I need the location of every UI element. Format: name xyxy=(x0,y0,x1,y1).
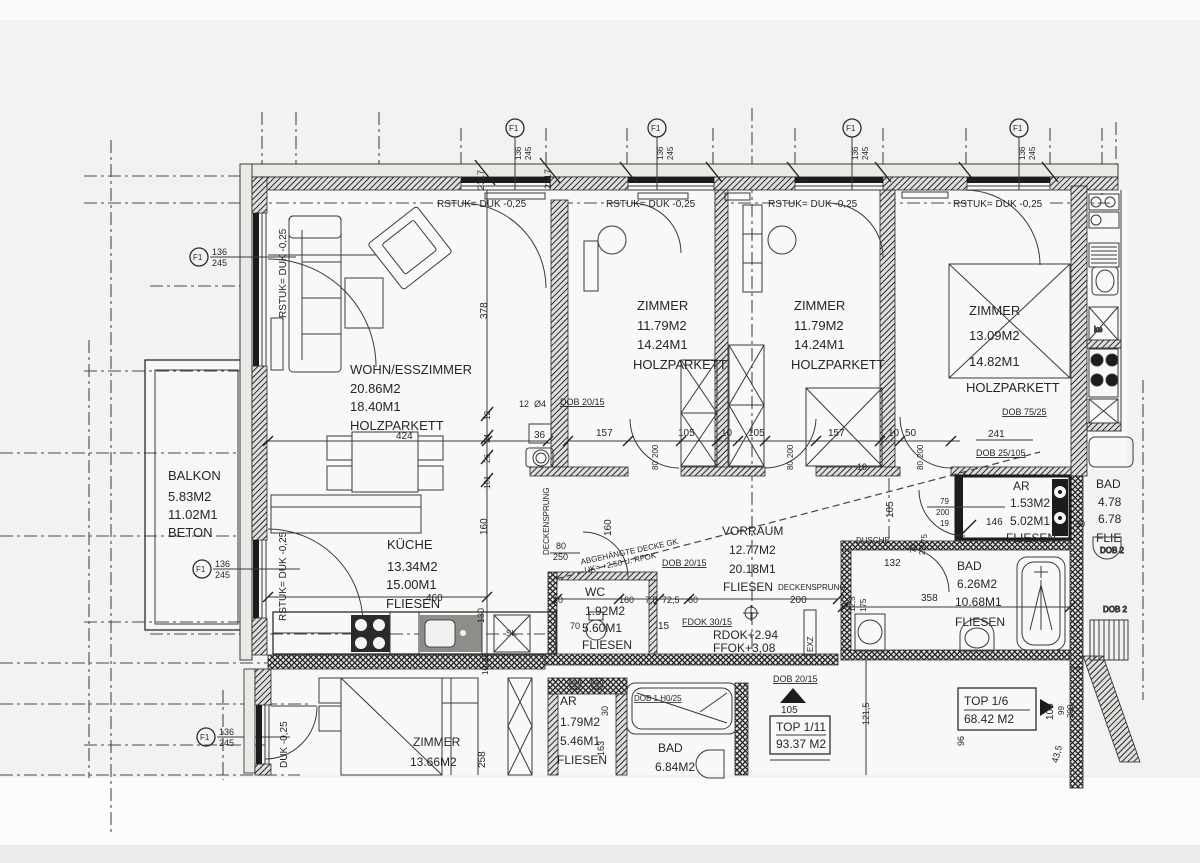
svg-text:132: 132 xyxy=(884,558,901,569)
svg-text:245: 245 xyxy=(215,570,230,580)
svg-text:F1: F1 xyxy=(651,124,661,133)
svg-text:160: 160 xyxy=(479,518,490,535)
svg-text:200: 200 xyxy=(1066,704,1075,718)
svg-text:72,5: 72,5 xyxy=(662,595,680,605)
svg-text:12: 12 xyxy=(483,411,492,420)
svg-text:EXZ: EXZ xyxy=(806,636,815,652)
svg-text:SK: SK xyxy=(506,629,517,638)
svg-text:79: 79 xyxy=(940,497,949,506)
svg-text:7,5: 7,5 xyxy=(645,595,658,605)
svg-text:105: 105 xyxy=(781,705,798,716)
svg-text:5.02M1: 5.02M1 xyxy=(1010,514,1050,528)
svg-text:AR: AR xyxy=(1013,479,1030,493)
svg-text:BETON: BETON xyxy=(168,525,213,540)
svg-text:RSTUK= DUK -0,25: RSTUK= DUK -0,25 xyxy=(953,199,1043,210)
svg-text:26: 26 xyxy=(483,454,492,463)
svg-text:200: 200 xyxy=(936,508,950,517)
svg-text:ke: ke xyxy=(1094,325,1103,334)
svg-text:245: 245 xyxy=(212,258,227,268)
svg-text:AR: AR xyxy=(560,694,577,708)
svg-text:FLIESEN: FLIESEN xyxy=(1006,531,1056,545)
svg-text:105: 105 xyxy=(1045,703,1056,720)
svg-text:VORRAUM: VORRAUM xyxy=(722,524,783,538)
svg-text:13.34M2: 13.34M2 xyxy=(387,559,438,574)
svg-text:136: 136 xyxy=(219,727,234,737)
svg-text:11.79M2: 11.79M2 xyxy=(794,318,844,333)
svg-text:358: 358 xyxy=(921,593,938,604)
svg-text:200: 200 xyxy=(651,444,660,458)
svg-text:157: 157 xyxy=(596,428,613,439)
svg-text:12: 12 xyxy=(519,399,529,409)
svg-text:258: 258 xyxy=(477,751,488,768)
svg-text:DOB 20/15: DOB 20/15 xyxy=(773,674,818,684)
svg-text:245: 245 xyxy=(666,146,675,160)
svg-text:10: 10 xyxy=(481,666,490,675)
svg-text:F1: F1 xyxy=(200,733,210,742)
svg-text:146: 146 xyxy=(986,517,1003,528)
svg-text:245: 245 xyxy=(219,738,234,748)
svg-text:DOB 75/25: DOB 75/25 xyxy=(1002,407,1047,417)
svg-text:15.00M1: 15.00M1 xyxy=(386,577,437,592)
svg-text:HOLZPARKETT: HOLZPARKETT xyxy=(633,357,727,372)
svg-text:FFOK+3,08: FFOK+3,08 xyxy=(713,641,776,655)
svg-text:Ø4: Ø4 xyxy=(534,399,546,409)
svg-text:DECKENSPRUNG: DECKENSPRUNG xyxy=(542,487,551,555)
svg-text:50: 50 xyxy=(905,428,917,439)
svg-text:20: 20 xyxy=(481,653,490,662)
svg-text:105: 105 xyxy=(678,428,695,439)
svg-text:WC: WC xyxy=(585,585,605,599)
svg-text:163: 163 xyxy=(596,741,606,756)
svg-text:136: 136 xyxy=(212,247,227,257)
svg-text:80: 80 xyxy=(556,541,566,551)
svg-text:DOB 20/15: DOB 20/15 xyxy=(560,397,605,407)
svg-text:5.83M2: 5.83M2 xyxy=(168,489,211,504)
svg-text:19: 19 xyxy=(940,519,949,528)
svg-text:DOB 2: DOB 2 xyxy=(1100,546,1125,555)
svg-text:75: 75 xyxy=(920,534,929,543)
svg-text:80: 80 xyxy=(786,461,795,470)
svg-text:14.24M1: 14.24M1 xyxy=(794,337,845,352)
svg-text:RSTUK= DUK -0,25: RSTUK= DUK -0,25 xyxy=(606,199,696,210)
svg-text:5.60M1: 5.60M1 xyxy=(582,621,622,635)
svg-text:200: 200 xyxy=(786,444,795,458)
svg-text:241: 241 xyxy=(988,429,1005,440)
svg-text:200: 200 xyxy=(916,444,925,458)
svg-text:RSTUK= DUK -0,25: RSTUK= DUK -0,25 xyxy=(768,199,858,210)
svg-text:DOB 1 H0/25: DOB 1 H0/25 xyxy=(634,694,682,703)
svg-text:10.68M1: 10.68M1 xyxy=(955,595,1002,609)
svg-text:WOHN/ESSZIMMER: WOHN/ESSZIMMER xyxy=(350,362,472,377)
svg-text:378: 378 xyxy=(479,302,490,319)
svg-text:FLIESEN: FLIESEN xyxy=(723,580,773,594)
svg-text:F1: F1 xyxy=(193,253,203,262)
svg-text:TOP 1/6: TOP 1/6 xyxy=(964,694,1009,708)
svg-text:96: 96 xyxy=(956,736,966,746)
svg-text:6.26M2: 6.26M2 xyxy=(957,577,997,591)
svg-text:ZIMMER: ZIMMER xyxy=(637,298,688,313)
svg-text:11.79M2: 11.79M2 xyxy=(637,318,687,333)
svg-text:RSTUK= DUK -0,25: RSTUK= DUK -0,25 xyxy=(437,199,527,210)
svg-text:5.46M1: 5.46M1 xyxy=(560,734,600,748)
svg-text:68.42 M2: 68.42 M2 xyxy=(964,712,1014,726)
svg-text:RDOK+2.94: RDOK+2.94 xyxy=(713,628,778,642)
svg-text:BALKON: BALKON xyxy=(168,468,221,483)
svg-text:KÜCHE: KÜCHE xyxy=(387,537,433,552)
svg-text:80: 80 xyxy=(916,461,925,470)
svg-text:FLIESEN: FLIESEN xyxy=(582,638,632,652)
svg-text:70: 70 xyxy=(570,621,580,631)
svg-text:DUK -0,25: DUK -0,25 xyxy=(279,721,290,768)
svg-text:30: 30 xyxy=(600,706,610,716)
svg-text:20.86M2: 20.86M2 xyxy=(350,381,401,396)
svg-text:160: 160 xyxy=(603,519,614,536)
svg-text:F1: F1 xyxy=(509,124,519,133)
svg-text:ZIMMER: ZIMMER xyxy=(794,298,845,313)
svg-text:10: 10 xyxy=(721,428,733,439)
svg-text:70: 70 xyxy=(909,544,918,553)
svg-text:12,5: 12,5 xyxy=(848,596,857,612)
svg-text:175: 175 xyxy=(859,598,868,612)
svg-text:20.18M1: 20.18M1 xyxy=(729,562,776,576)
svg-text:HOLZPARKETT: HOLZPARKETT xyxy=(966,380,1060,395)
svg-text:F1: F1 xyxy=(196,565,206,574)
svg-text:BAD: BAD xyxy=(1096,477,1121,491)
svg-text:RSTUK= DUK -0,25: RSTUK= DUK -0,25 xyxy=(278,228,289,318)
svg-text:80: 80 xyxy=(651,461,660,470)
svg-text:136: 136 xyxy=(215,559,230,569)
svg-text:DOB 20/15: DOB 20/15 xyxy=(662,558,707,568)
svg-text:DOB 25/105: DOB 25/105 xyxy=(976,448,1026,458)
svg-text:200: 200 xyxy=(790,595,807,606)
svg-text:93.37 M2: 93.37 M2 xyxy=(776,737,826,751)
svg-text:99: 99 xyxy=(1057,706,1066,715)
svg-text:245: 245 xyxy=(524,146,533,160)
svg-text:105: 105 xyxy=(748,428,765,439)
svg-text:DOB 2: DOB 2 xyxy=(1103,605,1128,614)
svg-text:ZIMMER: ZIMMER xyxy=(969,303,1020,318)
svg-text:6.84M2: 6.84M2 xyxy=(655,760,695,774)
svg-text:13.66M2: 13.66M2 xyxy=(410,755,457,769)
svg-text:18.40M1: 18.40M1 xyxy=(350,399,401,414)
svg-text:424: 424 xyxy=(396,431,413,442)
svg-text:105: 105 xyxy=(885,501,896,518)
svg-text:60: 60 xyxy=(688,595,698,605)
svg-text:19: 19 xyxy=(857,462,867,472)
svg-text:TOP 1/11: TOP 1/11 xyxy=(776,720,826,734)
svg-text:14.82M1: 14.82M1 xyxy=(969,354,1020,369)
svg-text:245: 245 xyxy=(861,146,870,160)
svg-text:HOLZPARKETT: HOLZPARKETT xyxy=(791,357,885,372)
svg-text:10: 10 xyxy=(553,595,563,605)
svg-text:15: 15 xyxy=(658,621,670,632)
svg-text:130: 130 xyxy=(476,608,486,623)
svg-text:36: 36 xyxy=(534,430,546,441)
svg-text:460: 460 xyxy=(426,593,443,604)
svg-text:245: 245 xyxy=(1028,146,1037,160)
svg-text:ZIMMER: ZIMMER xyxy=(413,735,461,749)
svg-text:BAD: BAD xyxy=(957,559,982,573)
svg-text:DECKENSPRUNG: DECKENSPRUNG xyxy=(778,583,846,592)
svg-text:1.79M2: 1.79M2 xyxy=(560,715,600,729)
svg-text:BAD: BAD xyxy=(658,741,683,755)
svg-text:DUSCHE: DUSCHE xyxy=(856,536,890,545)
svg-text:14.24M1: 14.24M1 xyxy=(637,337,688,352)
svg-text:10: 10 xyxy=(888,428,900,439)
svg-text:FLIESEN: FLIESEN xyxy=(955,615,1005,629)
svg-text:1.92M2: 1.92M2 xyxy=(585,604,625,618)
svg-text:F1: F1 xyxy=(846,124,856,133)
svg-text:FLIE: FLIE xyxy=(1096,531,1121,545)
svg-text:FDOK 30/15: FDOK 30/15 xyxy=(682,617,732,627)
svg-text:4.78: 4.78 xyxy=(1098,495,1122,509)
svg-text:157: 157 xyxy=(828,428,845,439)
svg-text:6.78: 6.78 xyxy=(1098,512,1122,526)
svg-text:200: 200 xyxy=(918,541,927,555)
svg-text:F1: F1 xyxy=(1013,124,1023,133)
svg-text:12.77M2: 12.77M2 xyxy=(729,543,776,557)
svg-text:1.53M2: 1.53M2 xyxy=(1010,496,1050,510)
svg-text:13.09M2: 13.09M2 xyxy=(969,328,1020,343)
svg-text:30: 30 xyxy=(1075,519,1085,529)
svg-text:RSTUK= DUK -0,25: RSTUK= DUK -0,25 xyxy=(278,531,289,621)
svg-text:11.02M1: 11.02M1 xyxy=(168,507,218,522)
